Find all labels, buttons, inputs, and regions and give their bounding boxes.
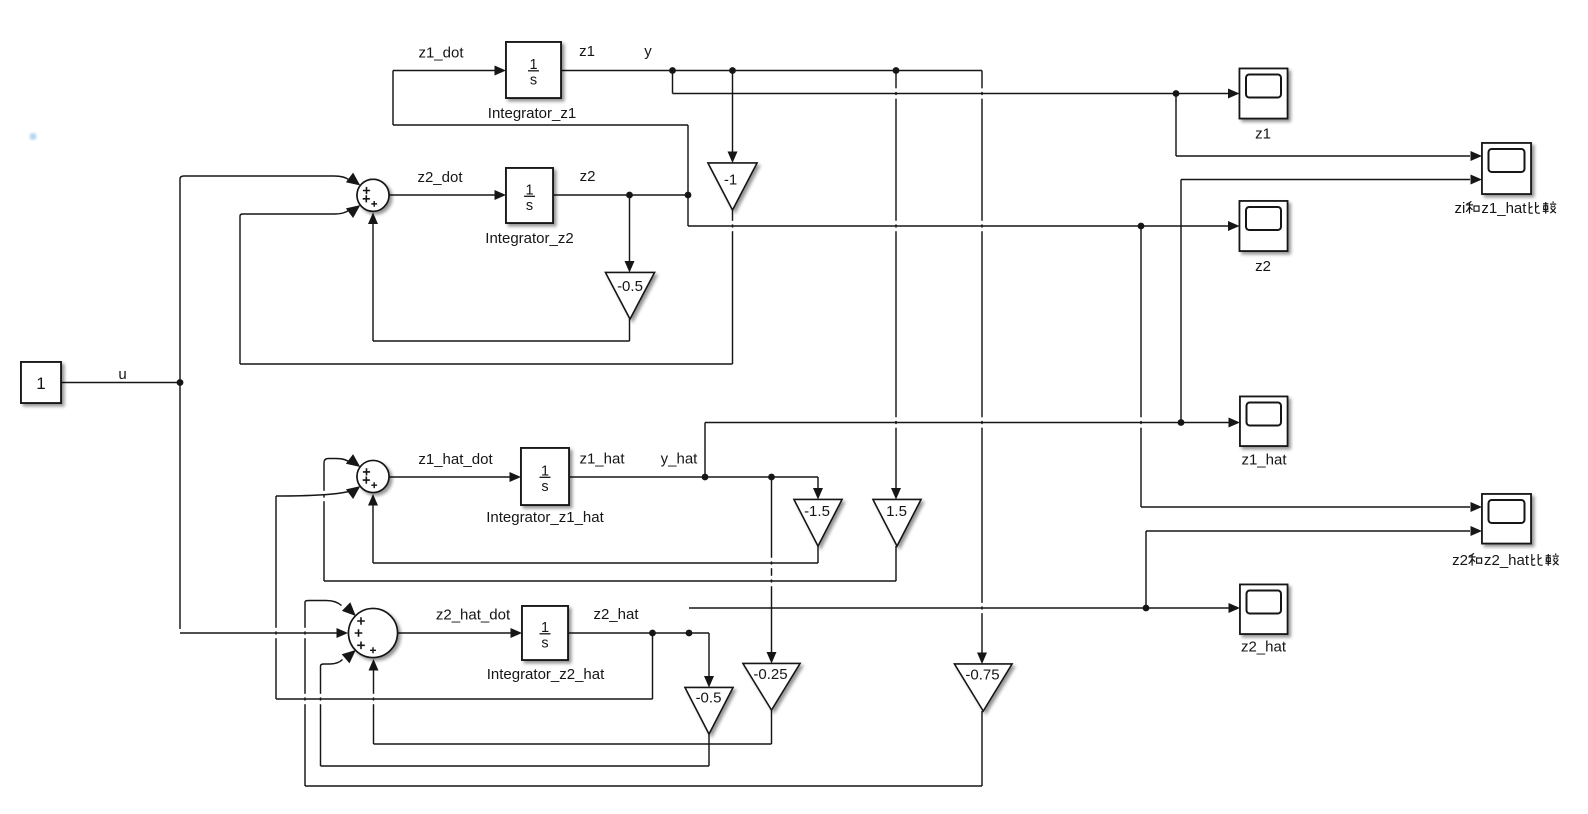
wire gain -1 output vertical (732, 210, 734, 364)
junction dot z2 junction a (626, 192, 633, 199)
junction dot z2 scope-row junction (1138, 223, 1145, 230)
wire y to z1 scope (673, 89, 1240, 99)
wire gain -0.75 output vertical (981, 711, 983, 786)
wire u into sum3 (180, 628, 348, 638)
wire y_hat to gain -0.25 vertical (767, 477, 777, 664)
sum junction S3 (z2_hat_dot) (349, 609, 398, 658)
scope block z2_hat (1240, 585, 1288, 635)
gain block -0.5 (z2_hat) (685, 688, 733, 735)
wire z2_hat output row (568, 632, 709, 634)
wire z2_hat to gain -0.5 vertical (704, 633, 714, 688)
wire gain -0.25 output vertical (771, 710, 773, 744)
wire z2_hat to compare scope vertical (1145, 531, 1147, 608)
wire gain -0.75 output to sum3 upper input (305, 601, 356, 617)
svg-text:Integrator_z2: Integrator_z2 (485, 230, 573, 247)
wire y_hat to gain -1.5 vertical (813, 477, 823, 500)
junction dot y junction a (669, 67, 676, 74)
wire y_hat row (569, 476, 818, 478)
svg-text:s: s (541, 479, 548, 495)
junction dot z2_hat junction b (686, 630, 693, 637)
svg-text:-0.75: -0.75 (965, 667, 999, 684)
junction dot z1_hat scope-row junction (1178, 419, 1185, 426)
wire y_hat to z1_hat scope (705, 418, 1240, 428)
wire y to gain 1.5 vertical (891, 71, 901, 500)
svg-text:z2: z2 (1452, 552, 1468, 569)
wire -1 feedback vertical x=240 (239, 216, 241, 364)
wire y branch drop to z1 scope row (672, 71, 674, 94)
integrator block Integrator_z2_hat (487, 606, 605, 683)
wire z1_dot into integrator (393, 66, 506, 76)
wire gain 1.5 output vertical (895, 546, 897, 581)
svg-text:y_hat: y_hat (661, 451, 699, 468)
wire z2 feedback up vertical (687, 125, 689, 195)
constant block 1 (u source) (21, 362, 61, 403)
wire z2 feedback to z1_dot (393, 124, 688, 126)
svg-text:z1_hat_dot: z1_hat_dot (418, 451, 493, 468)
svg-text:-0.25: -0.25 (753, 666, 787, 683)
svg-text:-0.5: -0.5 (617, 278, 643, 295)
gain block -0.75 (y) (955, 664, 1013, 711)
wire u to sum1 upper input (180, 173, 360, 186)
wire sum3 bottom feed vertical (369, 659, 379, 744)
label compare scope zi和z1_hat比较 (1455, 200, 1557, 217)
faint blue dot artifact (29, 133, 36, 140)
gain block -0.5 (z2 feedback) (606, 273, 655, 320)
svg-text:z2: z2 (580, 168, 596, 185)
svg-text:z1_hat: z1_hat (1481, 200, 1527, 217)
gain block 1.5 (y) (873, 500, 921, 547)
svg-text:1.5: 1.5 (886, 503, 907, 520)
wire gain 1.5 output to sum2 upper input (324, 454, 360, 467)
sum junction S1 (z2_dot) (357, 179, 389, 211)
wire gain -0.5 output horizontal (373, 340, 630, 342)
wire y to gain -1 vertical (728, 71, 738, 164)
junction dot y junction b (729, 67, 736, 74)
svg-text:z2_hat: z2_hat (1241, 639, 1287, 656)
junction dot u junction (177, 379, 184, 386)
svg-text:Integrator_z1: Integrator_z1 (488, 105, 576, 122)
wire z2_hat to z2_hat scope (689, 603, 1240, 613)
wire z1 into compare scope (1176, 151, 1482, 161)
wire z1 / y main row (561, 70, 982, 72)
wire sum1 bottom feed vertical (368, 213, 378, 342)
wire z2_hat feedback vertical x=276 (275, 496, 277, 699)
wire z2 into compare scope (1141, 502, 1482, 512)
wire -1 output to sum1 lower input (240, 205, 360, 218)
wire z2_dot into integrator (389, 190, 506, 200)
junction dot z2 junction b (685, 192, 692, 199)
scope block z1 (1240, 69, 1288, 119)
wire z2 drop to scope row vertical (687, 195, 689, 226)
svg-text:z1_hat: z1_hat (579, 451, 625, 468)
wire y_hat up branch vertical (704, 423, 706, 478)
wire u distribution vertical x=180 (179, 179, 181, 629)
junction dot y_hat junction b (768, 474, 775, 481)
svg-text:u: u (118, 366, 126, 383)
wire u from constant (61, 382, 180, 384)
gain block -1 (y feedback) (708, 163, 757, 210)
wire z2 to compare scope vertical (1140, 226, 1142, 507)
scope block z2 and z2_hat compare (1482, 494, 1531, 544)
svg-text:z2_hat_dot: z2_hat_dot (436, 607, 511, 624)
svg-text:-0.5: -0.5 (696, 690, 722, 707)
wire gain -0.75 output horizontal (305, 785, 982, 787)
scope block zi and z1_hat compare (1482, 143, 1531, 194)
wire z2_hat feedback horizontal (276, 698, 653, 700)
wire gain -0.5 (lower) output horizontal (321, 765, 710, 767)
gain block -0.25 (y_hat) (743, 664, 800, 711)
wire gain -1.5 output horizontal (373, 562, 818, 564)
label compare scope z2和z2_hat比较 (1452, 552, 1559, 569)
gain block -1.5 (y_hat) (794, 500, 842, 547)
wire z2 output row (553, 194, 688, 196)
junction dot z1 scope-row junction (1173, 90, 1180, 97)
integrator block Integrator_z2 (485, 168, 573, 247)
svg-text:1: 1 (36, 374, 45, 393)
wire z1_hat_dot into integrator (389, 472, 521, 482)
svg-text:s: s (526, 198, 533, 214)
svg-text:z1_hat: z1_hat (1241, 452, 1287, 469)
junction dot y junction c (893, 67, 900, 74)
svg-text:z2_hat: z2_hat (593, 606, 639, 623)
wire gain 1.5 output horizontal (324, 580, 896, 582)
wire z2_hat to sum2 lower input (276, 486, 360, 499)
wire z1_hat into compare scope (1181, 175, 1482, 185)
scope block z2 (1240, 201, 1288, 251)
svg-text:z1_dot: z1_dot (418, 45, 464, 62)
scope block z1_hat (1240, 397, 1288, 447)
wire 1.5 feedback vertical x=324 (323, 463, 325, 581)
wire z2_hat into compare scope (1146, 526, 1482, 536)
wire gain -0.5 (lower) to sum3 lower input (321, 650, 356, 666)
svg-text:y: y (644, 43, 652, 60)
junction dot z2_hat scope-row junction (1143, 605, 1150, 612)
svg-text:z2: z2 (1255, 258, 1271, 275)
wire y to gain -0.75 vertical (977, 71, 987, 665)
svg-text:Integrator_z1_hat: Integrator_z1_hat (486, 509, 604, 526)
svg-text:Integrator_z2_hat: Integrator_z2_hat (487, 666, 605, 683)
svg-text:-1.5: -1.5 (804, 503, 830, 520)
wire sum2 bottom feed vertical (368, 494, 378, 563)
wire z2_hat_dot into integrator (398, 628, 523, 638)
svg-text:s: s (530, 73, 537, 89)
wire gain -0.25 output horizontal (374, 743, 772, 745)
integrator block Integrator_z1 (488, 42, 576, 122)
svg-text:-1: -1 (724, 172, 737, 189)
svg-text:z1: z1 (579, 43, 595, 60)
svg-text:s: s (541, 636, 548, 652)
wire z2_hat feedback drop vertical (652, 633, 654, 699)
wire z1 to compare scope vertical (1175, 94, 1177, 157)
svg-text:z1: z1 (1255, 126, 1271, 143)
wire z1_dot corner vertical x=393 (392, 71, 394, 126)
wire z2 to gain -0.5 vertical (625, 196, 635, 273)
sum junction S2 (z1_hat_dot) (357, 461, 389, 493)
svg-text:z2_dot: z2_dot (417, 169, 463, 186)
junction dot y_hat junction a (702, 474, 709, 481)
wire -0.75 feedback vertical x=305 (304, 602, 306, 786)
wire gain -1.5 output vertical (817, 546, 819, 563)
wire gain -0.5 output vertical (629, 319, 631, 341)
wire z2 to z2 scope (688, 221, 1240, 231)
svg-text:zi: zi (1455, 200, 1466, 217)
wire gain -0.5 (lower) output vertical (708, 734, 710, 766)
wire -0.5 feedback vertical x=320.5 (320, 666, 322, 766)
wire crossing gaps (275, 88, 1143, 704)
integrator block Integrator_z1_hat (486, 448, 604, 526)
wire z1_hat to compare scope vertical (1180, 180, 1182, 423)
svg-text:z2_hat: z2_hat (1484, 552, 1530, 569)
junction dot z2_hat junction a (649, 630, 656, 637)
wire gain -1 output horizontal (240, 363, 733, 365)
